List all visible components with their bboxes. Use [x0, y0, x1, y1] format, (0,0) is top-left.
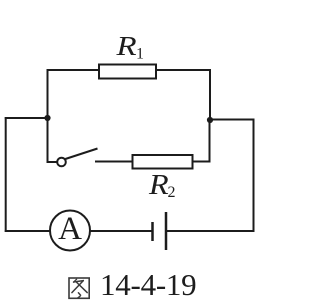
wire: left branch vertical (top corner down to switch stub) [48, 69, 58, 162]
wire: bottom-left segment (corner to ammeter) [5, 230, 51, 232]
wire: right branch vertical (top corner down to junction) [209, 69, 211, 121]
resistor R1 [99, 65, 156, 79]
wire: ammeter to battery [90, 230, 153, 232]
svg-text:A: A [58, 211, 82, 247]
ammeter A: body circle [50, 211, 90, 251]
wire: left outer vertical [5, 117, 7, 232]
wire: right outer vertical [253, 119, 255, 233]
wire: bottom-right segment (battery to corner) [166, 230, 255, 232]
battery cell: long plate (positive) [165, 212, 168, 250]
svg-text:R: R [115, 31, 136, 61]
svg-text:14-4-19: 14-4-19 [100, 267, 196, 302]
wire: top-right horizontal segment [155, 69, 211, 71]
wire: left junction to outer loop [5, 117, 48, 119]
resistor R2 [133, 155, 193, 169]
svg-text:R: R [148, 169, 169, 201]
wire: top-left horizontal segment [47, 69, 101, 71]
node: left junction dot [44, 115, 50, 121]
wire: right junction to outer loop [210, 119, 255, 121]
svg-text:1: 1 [136, 46, 144, 63]
svg-text:2: 2 [168, 184, 176, 201]
wire: switch fixed contact to R2 left terminal [95, 161, 133, 163]
node: right junction dot [207, 117, 213, 123]
switch S (open): pivot circle [57, 158, 66, 167]
battery cell: short plate (negative) [151, 222, 154, 241]
switch S (open): lever arm [65, 149, 97, 160]
caption: character 图 (drawn) [69, 278, 89, 298]
wire: right junction down to R2 right terminal [192, 120, 210, 162]
